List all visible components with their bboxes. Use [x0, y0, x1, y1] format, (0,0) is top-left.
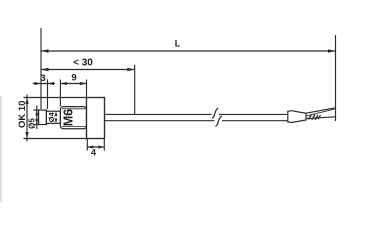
OK10 dimension line: [26, 95, 28, 142]
svg-text:4: 4: [91, 148, 96, 158]
probe tip cylinder (dia 5): [39, 110, 47, 125]
extension line at x=47.5 (end of tip): [47, 80, 49, 110]
extension line at x=60.4 (start of thread): [59, 80, 61, 107]
cable break mark lower: [215, 116, 221, 127]
svg-text:M6: M6: [61, 109, 75, 126]
dimension L extension line left: [40, 28, 42, 109]
dimension 4 extension line right: [103, 139, 105, 151]
wire end hatch marks: [309, 114, 321, 120]
svg-text:3: 3: [40, 73, 45, 84]
dimension 3-9 line: [33, 83, 55, 85]
wire lower: [306, 117, 336, 119]
svg-text:L: L: [175, 39, 181, 49]
cable break mark upper: [212, 108, 218, 119]
svg-text:OK 10: OK 10: [17, 101, 28, 128]
dimension <30 line: [41, 69, 135, 71]
dia5 extension dash top: [34, 109, 40, 111]
dimension <30 extension line right: [134, 65, 136, 115]
svg-text:Ø4: Ø4: [47, 111, 56, 122]
3 arrows (outside): [35, 82, 42, 85]
thread line top: [62, 108, 86, 110]
OK10 arrows: [25, 98, 28, 105]
arrowheads: [25, 49, 335, 148]
dia4 arrows: [55, 111, 58, 116]
thread body M6: [60, 107, 86, 129]
svg-text:Ø5: Ø5: [28, 118, 37, 129]
scan edge artifact: [0, 96, 2, 202]
OK10 extension line bottom: [24, 138, 88, 140]
dimension 4 line: [87, 146, 104, 148]
hex body (OK 10): [87, 98, 105, 139]
wire upper: [306, 108, 336, 113]
dia5 extension dash bottom: [34, 124, 40, 126]
<30 arrows: [41, 68, 49, 72]
extension line at x=86.5 (end of thread): [86, 80, 88, 98]
dimension 4 extension line left: [86, 139, 88, 151]
L arrows: [41, 49, 49, 53]
thread line bottom: [62, 125, 86, 127]
dia5 arrows: [35, 110, 38, 116]
dia4 dimension line: [55, 111, 57, 123]
svg-text:9: 9: [71, 73, 76, 84]
dimension L line: [41, 50, 336, 52]
9 arrows: [60, 82, 67, 85]
cable top line: [105, 113, 212, 115]
4 arrows: [87, 145, 93, 148]
dia5 dimension line: [36, 106, 38, 130]
dimension L extension line right: [335, 35, 337, 121]
OK10 extension line top: [24, 97, 88, 99]
svg-text:< 30: < 30: [73, 58, 93, 69]
cable bottom line: [105, 120, 215, 122]
ferrule / end sleeve: [288, 111, 306, 123]
neck (dia 4): [46, 111, 60, 123]
